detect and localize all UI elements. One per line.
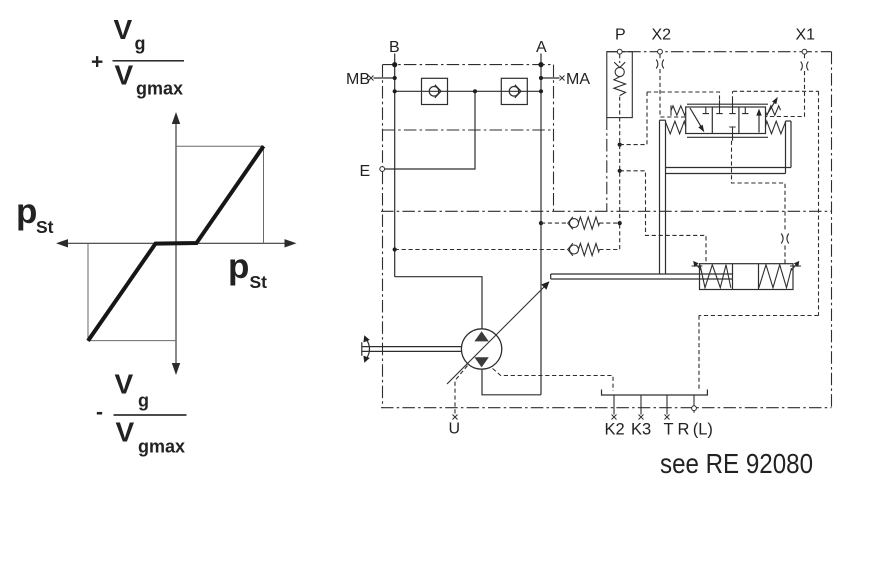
node U x-mark [453,415,458,420]
svg-text:V: V [115,369,134,400]
svg-text:V: V [116,417,135,448]
svg-text:gmax: gmax [136,79,183,99]
node mechanical feedback yoke (double lines) [660,120,792,274]
wire frame left block (dash-dot boundary) [383,65,554,408]
svg-text:-: - [96,401,103,424]
wire valve T-port to drain gallery [699,91,819,391]
wire P branch to left pilot box [620,92,647,145]
node vertical axis Vg/Vgmax [175,120,177,368]
pin port K3 line [640,395,642,415]
node shaft rotation arrows [367,340,370,359]
wire X1 pilot dashed [766,54,805,117]
svg-text:p: p [228,247,249,286]
svg-text:B: B [389,39,400,56]
node port P circle [617,49,622,54]
check valve right (boxed) [501,78,527,104]
wire main dash-dot divider [381,210,832,212]
wire port B line [394,54,396,277]
svg-text:V: V [114,14,133,45]
svg-text:MA: MA [566,71,590,88]
wire port MA stub [541,77,560,79]
svg-text:P: P [615,27,626,44]
pin port R(L) line [693,395,695,413]
pin port T line [666,395,668,415]
node drain gallery bracket [602,390,708,396]
node label pSt right [228,247,267,292]
check valve left (boxed) [422,78,448,104]
spring valve upper-left (small) [671,106,686,115]
svg-text:g: g [135,34,146,54]
wire B elbow to pump top [395,277,482,330]
pin valve bottom port stub [732,134,734,141]
node pump flow triangle down [474,357,488,367]
pin port K2 line [613,395,615,415]
svg-text:K2: K2 [605,421,625,439]
wire case drain to port U [455,366,468,416]
wire port A line [540,54,542,395]
svg-text:St: St [250,272,268,292]
spring valve upper-right (small, adjustable) [766,106,781,115]
pin valve top port stubs [719,100,721,107]
node junction dots top block [392,62,622,252]
svg-text:St: St [36,217,54,237]
spring valve lower-right (large, on feedback yoke) [765,121,785,134]
wire frame bottom edge [381,407,832,409]
wire left pilot box top to valve P-port [647,92,720,101]
wire valve output to cylinder right chamber [732,141,786,264]
node cylinder right adjustment arrow [791,265,796,271]
op directional control valve DRG: overline/underline (proportional) [687,104,768,137]
svg-text:V: V [115,60,134,91]
wire case drain to K-port gallery [493,369,613,392]
wire frame right block (dash-dot boundary) [607,52,832,408]
node port X1 circle [802,49,807,54]
node swivel-angle arrow through pump [447,286,546,385]
relief valve spring [614,77,626,96]
node thin guide rectangle bottom-left [88,243,176,340]
node pump flow triangle up [474,331,488,341]
node MA x-mark [560,76,565,81]
node valve left position flow arrow [690,108,702,128]
svg-text:gmax: gmax [138,437,185,457]
orifice at X2 [656,60,664,69]
node valve right position flow arrow [758,113,760,133]
op stroking cylinder body [700,264,794,290]
svg-text:T: T [664,421,674,439]
node label pSt left [16,192,54,237]
wire check-valve line B to A [395,90,541,92]
wire port MB stub [374,77,395,79]
svg-text:U: U [449,421,461,438]
node label +Vg/Vgmax [91,14,184,99]
node adjustment arrow on upper-right spring [767,102,775,115]
node drive shaft (double line) [362,342,462,356]
spring cylinder left chamber [700,265,731,288]
svg-text:X1: X1 [796,27,816,44]
svg-text:see RE 92080: see RE 92080 [660,448,813,479]
svg-text:R (L): R (L) [678,421,713,439]
svg-text:g: g [138,391,149,411]
relief valve box on P [607,52,633,118]
orifice on cylinder pilot line [781,234,789,244]
op axial piston pump (variable displacement) [461,329,501,369]
svg-text:X2: X2 [652,27,672,44]
svg-text:K3: K3 [631,421,651,439]
wire X2 pilot dashed [660,54,686,117]
wire E line and riser to check line [385,91,476,169]
orifice at X1 [801,62,809,71]
svg-text:E: E [360,163,371,180]
node control rod to stroking piston (double line) [551,274,733,279]
svg-text:p: p [16,192,37,231]
svg-text:MB: MB [346,71,370,88]
node label -Vg/Vgmax [96,369,187,457]
node thin guide rectangle top-right [176,146,264,243]
spring cylinder right chamber [759,265,792,288]
node valve blocked-port T marks [703,107,749,134]
node port E circle [380,167,385,172]
node cylinder piston [732,264,734,290]
op valve body 3 positions [686,107,766,134]
wire P branch to cylinder left chamber [620,171,706,264]
node port R(L) circle [692,406,697,411]
node characteristic curve (thick) [88,146,264,341]
node cylinder left adjustment arrow [697,265,702,271]
spring valve lower-left (large, on feedback yoke) [666,121,686,134]
pilot check valve row 1 (A to P) [541,217,620,230]
svg-text:+: + [91,51,103,74]
wire P pilot dashed line [619,54,621,223]
wire A elbow to pump bottom [482,369,541,395]
node MB x-mark [369,76,374,81]
relief valve ball and seat [614,62,625,76]
pilot check valve row 2 (B to P) [395,225,620,256]
node horizontal axis pSt [63,242,290,244]
svg-text:A: A [536,39,547,56]
node port X2 circle [658,49,663,54]
